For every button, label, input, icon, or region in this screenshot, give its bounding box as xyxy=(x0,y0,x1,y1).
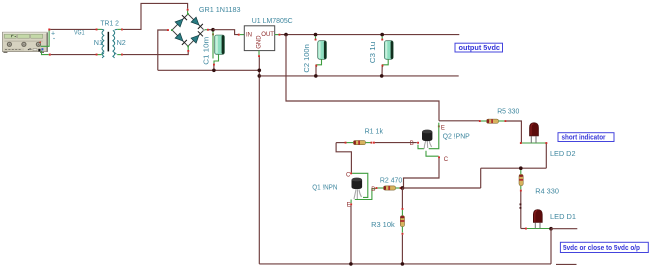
wire negative rail (rail1) xyxy=(158,69,259,71)
Q1 body (TO-92) xyxy=(352,178,363,189)
svg-text:B: B xyxy=(371,187,375,193)
pin TR1 s2 (bottom-right) xyxy=(121,54,123,56)
wire bottom ground rail xyxy=(259,263,551,265)
svg-text:OUT: OUT xyxy=(261,32,274,38)
capacitor C2 100n xyxy=(314,36,327,77)
node junction R4 top xyxy=(519,166,523,170)
primary coil N1 xyxy=(98,28,102,30)
pin VG1 + xyxy=(48,29,50,31)
wire ground stub right xyxy=(556,263,577,265)
wire Q2 emitter node to R5 xyxy=(439,120,479,122)
svg-text:GND: GND xyxy=(256,35,262,49)
Q2 body (TO-92) xyxy=(422,130,432,141)
op-amp U1 LM7805C (regulator box) xyxy=(244,26,274,51)
resistor R3 10k (vertical) xyxy=(400,188,404,264)
junction GND x rail2 xyxy=(258,74,262,78)
pin bridge AC1 xyxy=(187,9,189,11)
junction GND x rail1 xyxy=(258,69,262,73)
wire LED D2 cathode down xyxy=(545,144,547,168)
corner pin marks xyxy=(171,29,173,31)
capacitor C3 1u xyxy=(380,36,393,77)
pin U1 IN xyxy=(238,34,240,36)
svg-text:GR1 1N1183: GR1 1N1183 xyxy=(199,5,241,14)
svg-text:IN: IN xyxy=(246,33,252,39)
wire VG1+ to TR1 primary top xyxy=(50,28,96,30)
svg-text:Q1 !NPN: Q1 !NPN xyxy=(312,183,337,192)
wire Q1 emitter to ground rail xyxy=(350,205,352,264)
wire TR1 secondary top to bridge AC1 xyxy=(123,3,188,29)
generator VG1 (bench power supply picture) xyxy=(3,32,48,53)
transformer TR1 xyxy=(96,29,123,59)
svg-text:C1 10m: C1 10m xyxy=(202,37,211,65)
resistor R5 330 xyxy=(479,119,507,123)
node junction output drop xyxy=(284,33,288,37)
svg-text:short indicator: short indicator xyxy=(562,135,606,142)
bridge rectifier GR1 1N1183 xyxy=(171,13,205,47)
wire VG1- to TR1 primary bottom xyxy=(51,54,96,56)
capacitor C1 10m xyxy=(212,32,224,73)
svg-text:5vdc or close to 5vdc o/p: 5vdc or close to 5vdc o/p xyxy=(563,245,640,252)
pin C of Q2 xyxy=(438,156,440,158)
resistor R4 330 (vertical) xyxy=(519,170,523,229)
node V+ junction (C1 top) xyxy=(211,28,215,32)
diode GR1 top-right (top corner to right corner) xyxy=(191,17,203,29)
Q1 leads (green) xyxy=(352,173,368,197)
wire collector net vertical xyxy=(480,168,482,188)
wire collector net horizontal (to R4/LED D2) xyxy=(481,167,547,169)
resistor R1 1k xyxy=(336,141,375,145)
svg-text:B: B xyxy=(410,141,414,147)
pin VG1 - xyxy=(49,54,51,56)
wire R1 to Q2 base xyxy=(375,142,417,144)
LED D2 xyxy=(520,123,547,144)
secondary coil N2 xyxy=(117,28,121,30)
svg-text:E: E xyxy=(347,202,351,208)
wire R1 left to Q1 collector xyxy=(336,143,351,173)
svg-text:LED D2: LED D2 xyxy=(550,149,576,158)
svg-text:R3 10k: R3 10k xyxy=(371,220,395,229)
pin TR1 p1 (top-left) xyxy=(96,29,98,31)
svg-text:N2: N2 xyxy=(117,38,126,47)
resistor R2 470 xyxy=(377,186,401,190)
wire ground rail2 xyxy=(259,75,458,77)
svg-text:N1: N1 xyxy=(94,38,103,47)
node junction Q1 E x ground xyxy=(349,262,353,266)
wire bridge plus to node V+ xyxy=(209,29,213,31)
wire VG1 + terminal (green lead) xyxy=(41,30,50,46)
wire +5V drop to indicator circuit xyxy=(286,35,439,121)
pin TR1 s1 (top-right) xyxy=(121,29,123,31)
label box: short indicator xyxy=(558,133,614,142)
wire R5 to LED D2 anode xyxy=(506,121,521,143)
LED D1 xyxy=(521,210,550,230)
pin bridge AC2 xyxy=(187,50,189,52)
wire LED D1 cathode to ground rail xyxy=(550,229,552,264)
svg-text:C3 1u: C3 1u xyxy=(368,42,377,64)
node junction C3 top xyxy=(380,33,384,37)
diode GR1 bottom-left (left corner to bottom corner) xyxy=(175,33,187,45)
wire VG1 - terminal (green lead) xyxy=(42,51,49,55)
wire Q2 collector to R2 node xyxy=(404,158,440,188)
diode GR1 top-left (left corner to top corner) xyxy=(175,15,187,27)
svg-text:LED D1: LED D1 xyxy=(550,212,576,221)
svg-text:R2 470: R2 470 xyxy=(380,175,402,184)
core of TR1 xyxy=(108,32,110,52)
svg-text:E: E xyxy=(441,125,445,131)
svg-text:R5 330: R5 330 xyxy=(497,107,519,116)
wire +5V output rail xyxy=(280,34,459,36)
svg-text:+: + xyxy=(51,31,55,38)
Q1 metal legs xyxy=(354,190,362,200)
wire TR1 secondary bottom to bridge AC2 xyxy=(123,52,188,55)
svg-text:TR1 2: TR1 2 xyxy=(100,18,119,27)
pin bridge minus (left corner) xyxy=(167,29,169,31)
svg-text:U1 LM7805C: U1 LM7805C xyxy=(252,16,293,25)
svg-text:Q2 !PNP: Q2 !PNP xyxy=(443,132,470,141)
transistor Q2 !PNP xyxy=(410,123,449,163)
svg-text:C: C xyxy=(444,157,449,163)
node junction R2/R3/collector net xyxy=(401,186,405,190)
pin U1 OUT xyxy=(275,34,279,36)
Q2 leads (green) xyxy=(429,127,439,148)
svg-text:C2 100n: C2 100n xyxy=(302,44,311,72)
pin bridge plus (right corner) xyxy=(205,29,207,31)
transistor Q1 !NPN xyxy=(346,172,377,208)
wire R2 node to collector net vertical xyxy=(402,187,480,189)
node junction R3 x ground xyxy=(401,262,405,266)
pin U1 GND + wire to ground rails xyxy=(258,51,260,56)
wire LED D1 cathode stub to output tap xyxy=(551,228,577,230)
node junction C2 top xyxy=(314,33,318,37)
diode GR1 bottom-right (bottom corner to right corner) xyxy=(191,31,203,43)
svg-text:output 5vdc: output 5vdc xyxy=(459,45,501,52)
wire node V+ to U1 IN xyxy=(213,30,238,35)
svg-text:R4 330: R4 330 xyxy=(535,187,559,196)
label box: 5vdc or close to 5vdc o/p xyxy=(560,242,648,252)
pin TR1 p2 (bottom-left) xyxy=(96,54,98,56)
pin E of Q2 xyxy=(438,125,440,127)
wire bridge left corner to negative rail xyxy=(158,30,167,70)
svg-text:R1 1k: R1 1k xyxy=(365,126,384,135)
Q2 metal legs xyxy=(424,141,431,149)
diamond frame xyxy=(172,14,204,46)
label box: output 5vdc xyxy=(455,43,503,52)
node junction LED D1 cathode xyxy=(549,227,553,231)
